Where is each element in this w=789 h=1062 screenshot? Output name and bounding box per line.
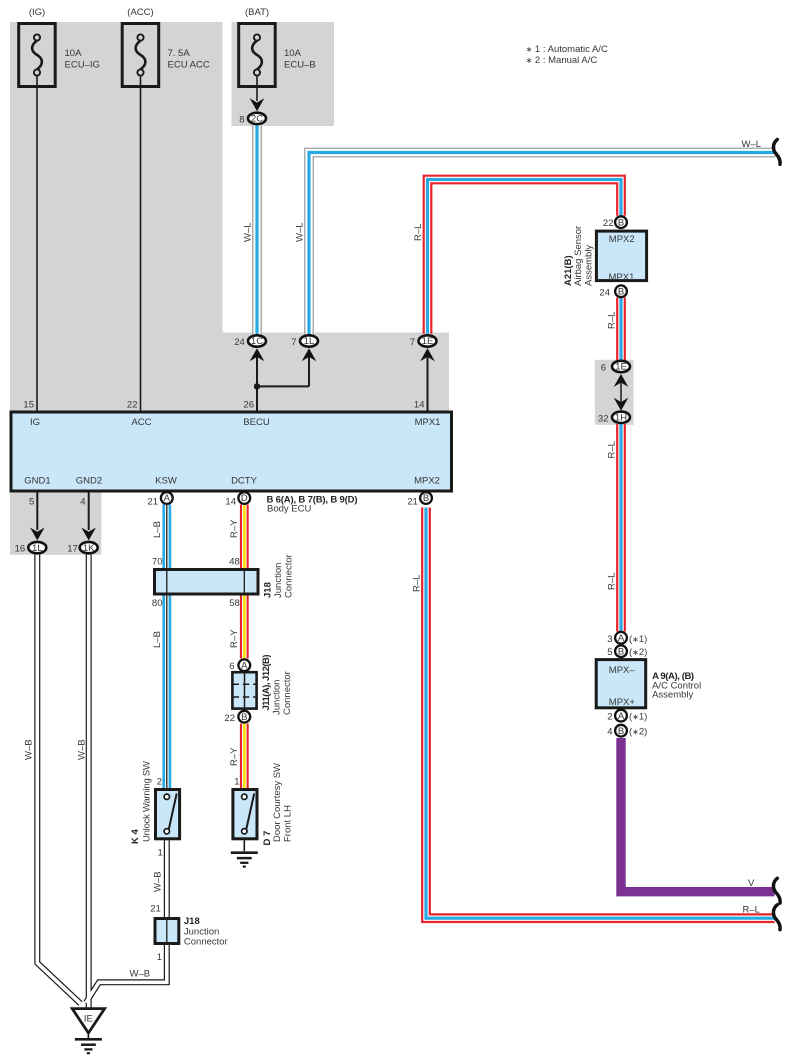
svg-text:∗ 2 : Manual A/C: ∗ 2 : Manual A/C (526, 55, 598, 66)
svg-text:MPX–: MPX– (609, 665, 636, 676)
svg-text:A: A (618, 711, 625, 722)
svg-text:MPX2: MPX2 (414, 476, 440, 487)
svg-text:BECU: BECU (243, 417, 270, 428)
svg-text:ACC: ACC (131, 417, 151, 428)
svg-text:ECU–B: ECU–B (284, 60, 316, 71)
svg-text:∗ 1 : Automatic A/C: ∗ 1 : Automatic A/C (526, 44, 608, 55)
svg-text:Connector: Connector (284, 554, 295, 598)
svg-text:1E: 1E (615, 362, 627, 373)
svg-text:Assembly: Assembly (652, 689, 693, 700)
svg-text:15: 15 (23, 400, 34, 411)
svg-text:16: 16 (15, 544, 26, 555)
svg-text:(∗2): (∗2) (629, 647, 647, 658)
svg-text:L–B: L–B (152, 631, 163, 648)
svg-text:1K: 1K (83, 543, 95, 554)
svg-text:MPX1: MPX1 (415, 417, 441, 428)
svg-text:4: 4 (80, 497, 85, 508)
svg-text:MPX1: MPX1 (609, 272, 635, 283)
svg-text:Junction: Junction (273, 563, 284, 598)
svg-text:(BAT): (BAT) (245, 7, 269, 18)
svg-text:W–B: W–B (24, 739, 35, 760)
svg-text:D: D (241, 493, 248, 504)
svg-text:R–Y: R–Y (229, 629, 240, 648)
svg-text:V: V (748, 878, 755, 889)
svg-text:8: 8 (239, 114, 244, 125)
svg-text:21: 21 (147, 497, 158, 508)
svg-text:Connector: Connector (184, 937, 228, 948)
svg-text:1: 1 (158, 848, 163, 859)
svg-text:26: 26 (243, 400, 254, 411)
svg-text:A: A (164, 493, 171, 504)
svg-text:21: 21 (407, 497, 418, 508)
svg-text:6: 6 (229, 661, 234, 672)
svg-text:R–L: R–L (607, 573, 618, 590)
svg-text:10A: 10A (65, 48, 83, 59)
svg-text:KSW: KSW (155, 476, 177, 487)
svg-text:DCTY: DCTY (231, 476, 258, 487)
svg-text:22: 22 (224, 713, 235, 724)
svg-text:14: 14 (225, 497, 236, 508)
svg-text:W–L: W–L (295, 222, 306, 242)
svg-text:R–Y: R–Y (229, 747, 240, 766)
svg-text:4: 4 (607, 727, 612, 738)
svg-text:21: 21 (150, 904, 161, 915)
svg-text:1L: 1L (32, 543, 43, 554)
svg-text:W–B: W–B (153, 871, 164, 892)
svg-text:32: 32 (598, 413, 609, 424)
svg-text:2C: 2C (251, 114, 263, 125)
svg-text:Front LH: Front LH (283, 805, 294, 842)
svg-text:Junction: Junction (272, 680, 283, 715)
svg-text:24: 24 (234, 337, 245, 348)
svg-text:MPX2: MPX2 (609, 234, 635, 245)
svg-text:Junction: Junction (184, 926, 219, 937)
svg-text:5: 5 (607, 647, 612, 658)
svg-text:58: 58 (229, 598, 240, 609)
svg-text:R–L: R–L (413, 224, 424, 241)
svg-text:3: 3 (607, 634, 612, 645)
svg-text:70: 70 (152, 557, 163, 568)
svg-text:(IG): (IG) (29, 7, 45, 18)
svg-text:Unlock Warning SW: Unlock Warning SW (142, 761, 153, 842)
svg-text:22: 22 (127, 400, 138, 411)
svg-text:14: 14 (414, 400, 425, 411)
svg-text:22: 22 (603, 218, 614, 229)
svg-text:(∗1): (∗1) (629, 634, 647, 645)
svg-text:B: B (618, 217, 624, 228)
svg-text:W–L: W–L (742, 139, 762, 150)
svg-text:Assembly: Assembly (584, 245, 595, 286)
svg-text:J18: J18 (184, 916, 200, 927)
svg-text:K 4: K 4 (130, 829, 141, 845)
svg-text:Airbag Sensor: Airbag Sensor (573, 226, 584, 286)
svg-text:7. 5A: 7. 5A (168, 48, 191, 59)
svg-text:24: 24 (599, 288, 610, 299)
svg-text:R–L: R–L (607, 441, 618, 458)
svg-text:1L: 1L (304, 336, 315, 347)
svg-text:1H: 1H (615, 413, 627, 424)
svg-text:IG: IG (30, 417, 40, 428)
svg-text:(∗2): (∗2) (629, 727, 647, 738)
svg-text:Connector: Connector (282, 671, 293, 715)
svg-text:IE: IE (84, 1014, 93, 1025)
svg-text:GND2: GND2 (76, 476, 102, 487)
svg-text:17: 17 (67, 544, 78, 555)
svg-text:W–B: W–B (77, 739, 88, 760)
svg-text:GND1: GND1 (24, 476, 50, 487)
svg-text:7: 7 (410, 337, 415, 348)
svg-text:Door Courtesy SW: Door Courtesy SW (272, 763, 283, 842)
svg-text:R–L: R–L (607, 312, 618, 329)
svg-text:MPX+: MPX+ (609, 697, 636, 708)
svg-text:2: 2 (607, 712, 612, 723)
svg-text:B: B (618, 726, 624, 737)
svg-text:ECU–IG: ECU–IG (65, 60, 100, 71)
svg-text:48: 48 (229, 557, 240, 568)
svg-text:A: A (618, 633, 625, 644)
svg-text:1C: 1C (251, 336, 263, 347)
svg-text:Body ECU: Body ECU (267, 504, 311, 515)
svg-text:5: 5 (29, 497, 34, 508)
svg-text:(∗1): (∗1) (629, 712, 647, 723)
svg-text:7: 7 (291, 337, 296, 348)
svg-text:B: B (618, 646, 624, 657)
svg-text:R–Y: R–Y (229, 519, 240, 538)
svg-text:1: 1 (157, 952, 162, 963)
svg-text:ECU ACC: ECU ACC (168, 60, 210, 71)
svg-text:80: 80 (152, 598, 163, 609)
svg-text:1E: 1E (422, 336, 434, 347)
svg-text:R–L: R–L (412, 575, 423, 592)
svg-text:W–L: W–L (243, 222, 254, 242)
svg-text:6: 6 (601, 363, 606, 374)
svg-text:10A: 10A (284, 48, 302, 59)
svg-text:A: A (241, 661, 248, 672)
svg-text:B: B (423, 493, 429, 504)
svg-text:1: 1 (234, 776, 239, 787)
svg-text:B: B (618, 287, 624, 298)
svg-text:2: 2 (157, 776, 162, 787)
svg-text:B: B (241, 712, 247, 723)
svg-text:(ACC): (ACC) (127, 7, 153, 18)
svg-text:J18: J18 (263, 582, 274, 598)
svg-text:R–L: R–L (743, 904, 760, 915)
svg-text:W–B: W–B (130, 969, 151, 980)
svg-text:J11(A), J12(B): J11(A), J12(B) (261, 655, 272, 711)
svg-text:L–B: L–B (152, 521, 163, 538)
